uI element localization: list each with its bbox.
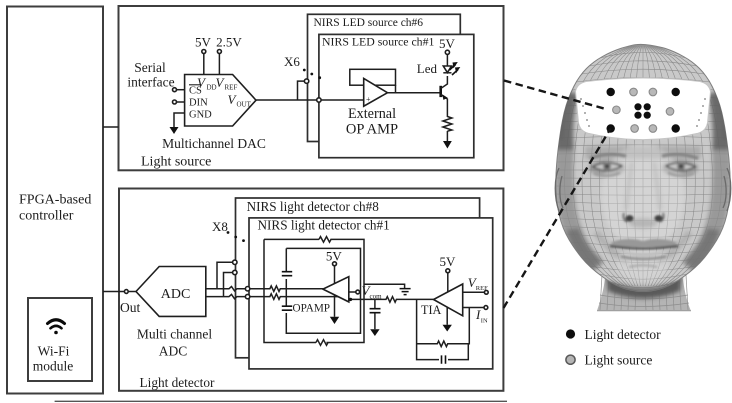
- svg-text:TIA: TIA: [421, 303, 442, 317]
- svg-text:5V: 5V: [439, 36, 456, 51]
- svg-text:IN: IN: [481, 318, 488, 325]
- svg-text:GND: GND: [189, 110, 212, 121]
- svg-text:ADC: ADC: [159, 344, 188, 359]
- svg-text:NIRS light detector ch#1: NIRS light detector ch#1: [258, 218, 390, 233]
- svg-text:5V: 5V: [440, 254, 457, 269]
- svg-text:interface: interface: [127, 75, 174, 90]
- svg-text:+: +: [366, 95, 371, 104]
- svg-text:Light detector: Light detector: [140, 375, 216, 390]
- svg-text:X6: X6: [284, 54, 300, 69]
- svg-text:DIN: DIN: [189, 98, 208, 109]
- svg-text:Light source: Light source: [141, 155, 211, 170]
- svg-text:Light detector: Light detector: [585, 327, 662, 342]
- svg-text:NIRS LED source ch#6: NIRS LED source ch#6: [314, 17, 424, 29]
- svg-text:Multichannel DAC: Multichannel DAC: [162, 136, 266, 151]
- svg-text:Led: Led: [417, 61, 438, 76]
- svg-text:X8: X8: [212, 219, 228, 234]
- svg-text:module: module: [33, 359, 74, 374]
- svg-text:Multi channel: Multi channel: [137, 327, 213, 342]
- svg-text:NIRS light detector ch#8: NIRS light detector ch#8: [247, 199, 380, 214]
- svg-text:Wi-Fi: Wi-Fi: [38, 344, 70, 359]
- svg-text:Light source: Light source: [585, 353, 653, 368]
- svg-text:External: External: [348, 106, 396, 122]
- svg-text:2.5V: 2.5V: [216, 35, 242, 50]
- svg-text:REF: REF: [225, 84, 238, 92]
- svg-text:controller: controller: [19, 209, 74, 224]
- svg-text:ADC: ADC: [161, 287, 191, 302]
- svg-text:REF: REF: [476, 285, 488, 292]
- svg-text:OP AMP: OP AMP: [346, 122, 398, 138]
- svg-text:OPAMP: OPAMP: [293, 303, 331, 315]
- svg-text:Serial: Serial: [134, 60, 166, 75]
- svg-text:Out: Out: [120, 300, 140, 315]
- svg-text:5V: 5V: [195, 35, 212, 50]
- svg-text:NIRS LED source ch#1: NIRS LED source ch#1: [322, 35, 434, 49]
- svg-text:FPGA-based: FPGA-based: [19, 193, 91, 208]
- svg-text:OUT: OUT: [237, 101, 252, 109]
